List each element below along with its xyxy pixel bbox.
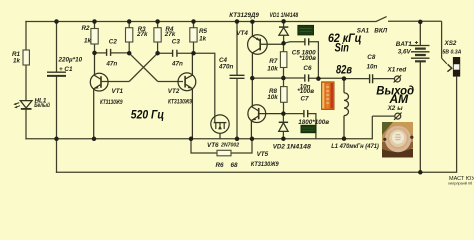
svg-text:47n: 47n — [105, 60, 117, 67]
pin X1 — [394, 75, 402, 82]
svg-text:VD1 1N4148: VD1 1N4148 — [270, 12, 299, 19]
capacitor C7 — [283, 96, 316, 139]
svg-text:VD2: VD2 — [273, 143, 286, 150]
svg-text:R5: R5 — [199, 28, 208, 35]
wire X2 riser — [371, 116, 373, 139]
wire VT4 collector to R7 R8 node — [252, 77, 283, 79]
svg-text:R7: R7 — [269, 58, 278, 65]
plug XS2 — [442, 58, 452, 71]
svg-text:ы: ы — [397, 105, 403, 112]
svg-text:27k: 27k — [136, 31, 148, 38]
wire top rail — [26, 21, 376, 23]
resistor R6 — [191, 139, 252, 169]
photo inductor coil — [382, 122, 413, 158]
svg-text:VT6: VT6 — [207, 142, 219, 149]
switch SA1 — [376, 17, 441, 22]
watermark — [448, 176, 474, 186]
svg-text:ВКЛ: ВКЛ — [374, 28, 387, 35]
svg-text:C7: C7 — [301, 96, 310, 103]
resistor R4 — [154, 22, 176, 54]
photo orange capacitor — [322, 82, 335, 110]
svg-text:C2: C2 — [109, 38, 118, 45]
diode VD1 — [279, 22, 288, 44]
svg-text:X1: X1 — [387, 67, 396, 74]
svg-text:КТ3129Д9: КТ3129Д9 — [229, 12, 259, 19]
socket XS2 — [453, 57, 460, 172]
svg-text:10k: 10k — [267, 94, 278, 101]
svg-text:470n: 470n — [218, 63, 234, 70]
battery BAT1 — [411, 22, 430, 172]
wire ground rail 2 — [57, 171, 457, 173]
svg-text:3,6V: 3,6V — [398, 49, 412, 56]
svg-text:27k: 27k — [164, 31, 176, 38]
svg-text:VT5: VT5 — [257, 151, 269, 158]
svg-text:КТ3130Ж9: КТ3130Ж9 — [168, 98, 192, 105]
transistor VT6 — [211, 115, 229, 139]
svg-text:L1 470мкГн (471): L1 470мкГн (471) — [331, 143, 379, 150]
transistor VT1 — [90, 53, 108, 139]
wire ground rail 1 — [26, 138, 372, 140]
wire top right corner — [441, 21, 443, 58]
capacitor C4 — [218, 22, 245, 139]
inductor L1 — [344, 79, 349, 139]
svg-text:*100в: *100в — [297, 88, 314, 95]
svg-text:C8: C8 — [367, 54, 376, 61]
transistor VT4 — [248, 22, 284, 79]
wire cross-coupling X — [101, 53, 183, 81]
resistor R1 — [12, 50, 29, 65]
resistor R2 — [82, 22, 99, 53]
svg-text:68: 68 — [231, 162, 239, 169]
svg-text:XS2: XS2 — [444, 40, 457, 47]
svg-text:Sin: Sin — [335, 40, 349, 54]
resistor R8 — [267, 78, 287, 114]
svg-text:*100в: *100в — [299, 55, 316, 62]
capacitor C8 — [344, 54, 394, 84]
svg-text:R2: R2 — [82, 25, 91, 32]
svg-text:82в: 82в — [336, 63, 352, 77]
svg-text:220µ*10: 220µ*10 — [58, 57, 83, 64]
svg-text:хилрлранй пб: хилрлранй пб — [448, 182, 473, 186]
svg-text:C3: C3 — [172, 38, 181, 45]
capacitor C3 — [158, 38, 194, 67]
svg-text:VT4: VT4 — [236, 30, 248, 37]
svg-text:SA1: SA1 — [357, 28, 370, 35]
svg-text:КТ3130Ж9: КТ3130Ж9 — [100, 99, 123, 106]
svg-text:Белый: Белый — [34, 101, 50, 109]
svg-text:VT2: VT2 — [168, 88, 180, 95]
LED HL1 — [13, 101, 32, 109]
svg-text:1N4148: 1N4148 — [287, 143, 312, 150]
svg-text:VT1: VT1 — [112, 88, 124, 95]
transistor VT5 — [248, 78, 284, 139]
resistor R3 — [126, 22, 149, 54]
svg-text:red: red — [396, 67, 406, 74]
svg-text:Х2: Х2 — [387, 105, 396, 112]
photo green capacitor top — [298, 25, 314, 35]
svg-text:+ C1: + C1 — [59, 66, 73, 73]
svg-text:1k: 1k — [13, 58, 21, 65]
svg-text:1k: 1k — [84, 37, 92, 44]
capacitor C2 — [105, 38, 129, 67]
capacitor C5 — [284, 38, 319, 78]
wire ground drop left — [56, 139, 58, 172]
wire left column — [25, 22, 27, 139]
transistor VT2 — [178, 53, 196, 139]
wire VT1 collector node — [95, 52, 107, 54]
svg-text:10k: 10k — [267, 65, 278, 72]
wire VT2 collector to VT6 — [194, 53, 215, 122]
svg-text:R6: R6 — [216, 162, 225, 169]
resistor R5 — [190, 22, 208, 54]
svg-text:BAT1: BAT1 — [396, 41, 412, 48]
capacitor C6 — [283, 65, 344, 95]
pin X2 — [372, 113, 401, 120]
svg-text:5В 0.3А: 5В 0.3А — [442, 49, 461, 55]
capacitor C1 — [47, 22, 83, 139]
svg-text:47n: 47n — [171, 60, 183, 67]
svg-text:520 Гц: 520 Гц — [131, 107, 165, 121]
svg-text:10n: 10n — [367, 63, 378, 70]
svg-text:1k: 1k — [199, 36, 207, 43]
diode VD2 — [279, 114, 288, 139]
svg-text:C6: C6 — [303, 65, 312, 72]
resistor R7 — [267, 43, 287, 78]
svg-text:2N7002: 2N7002 — [220, 142, 239, 148]
svg-text:КТ3130Ж9: КТ3130Ж9 — [251, 161, 279, 168]
photo green capacitor bottom — [301, 125, 316, 133]
